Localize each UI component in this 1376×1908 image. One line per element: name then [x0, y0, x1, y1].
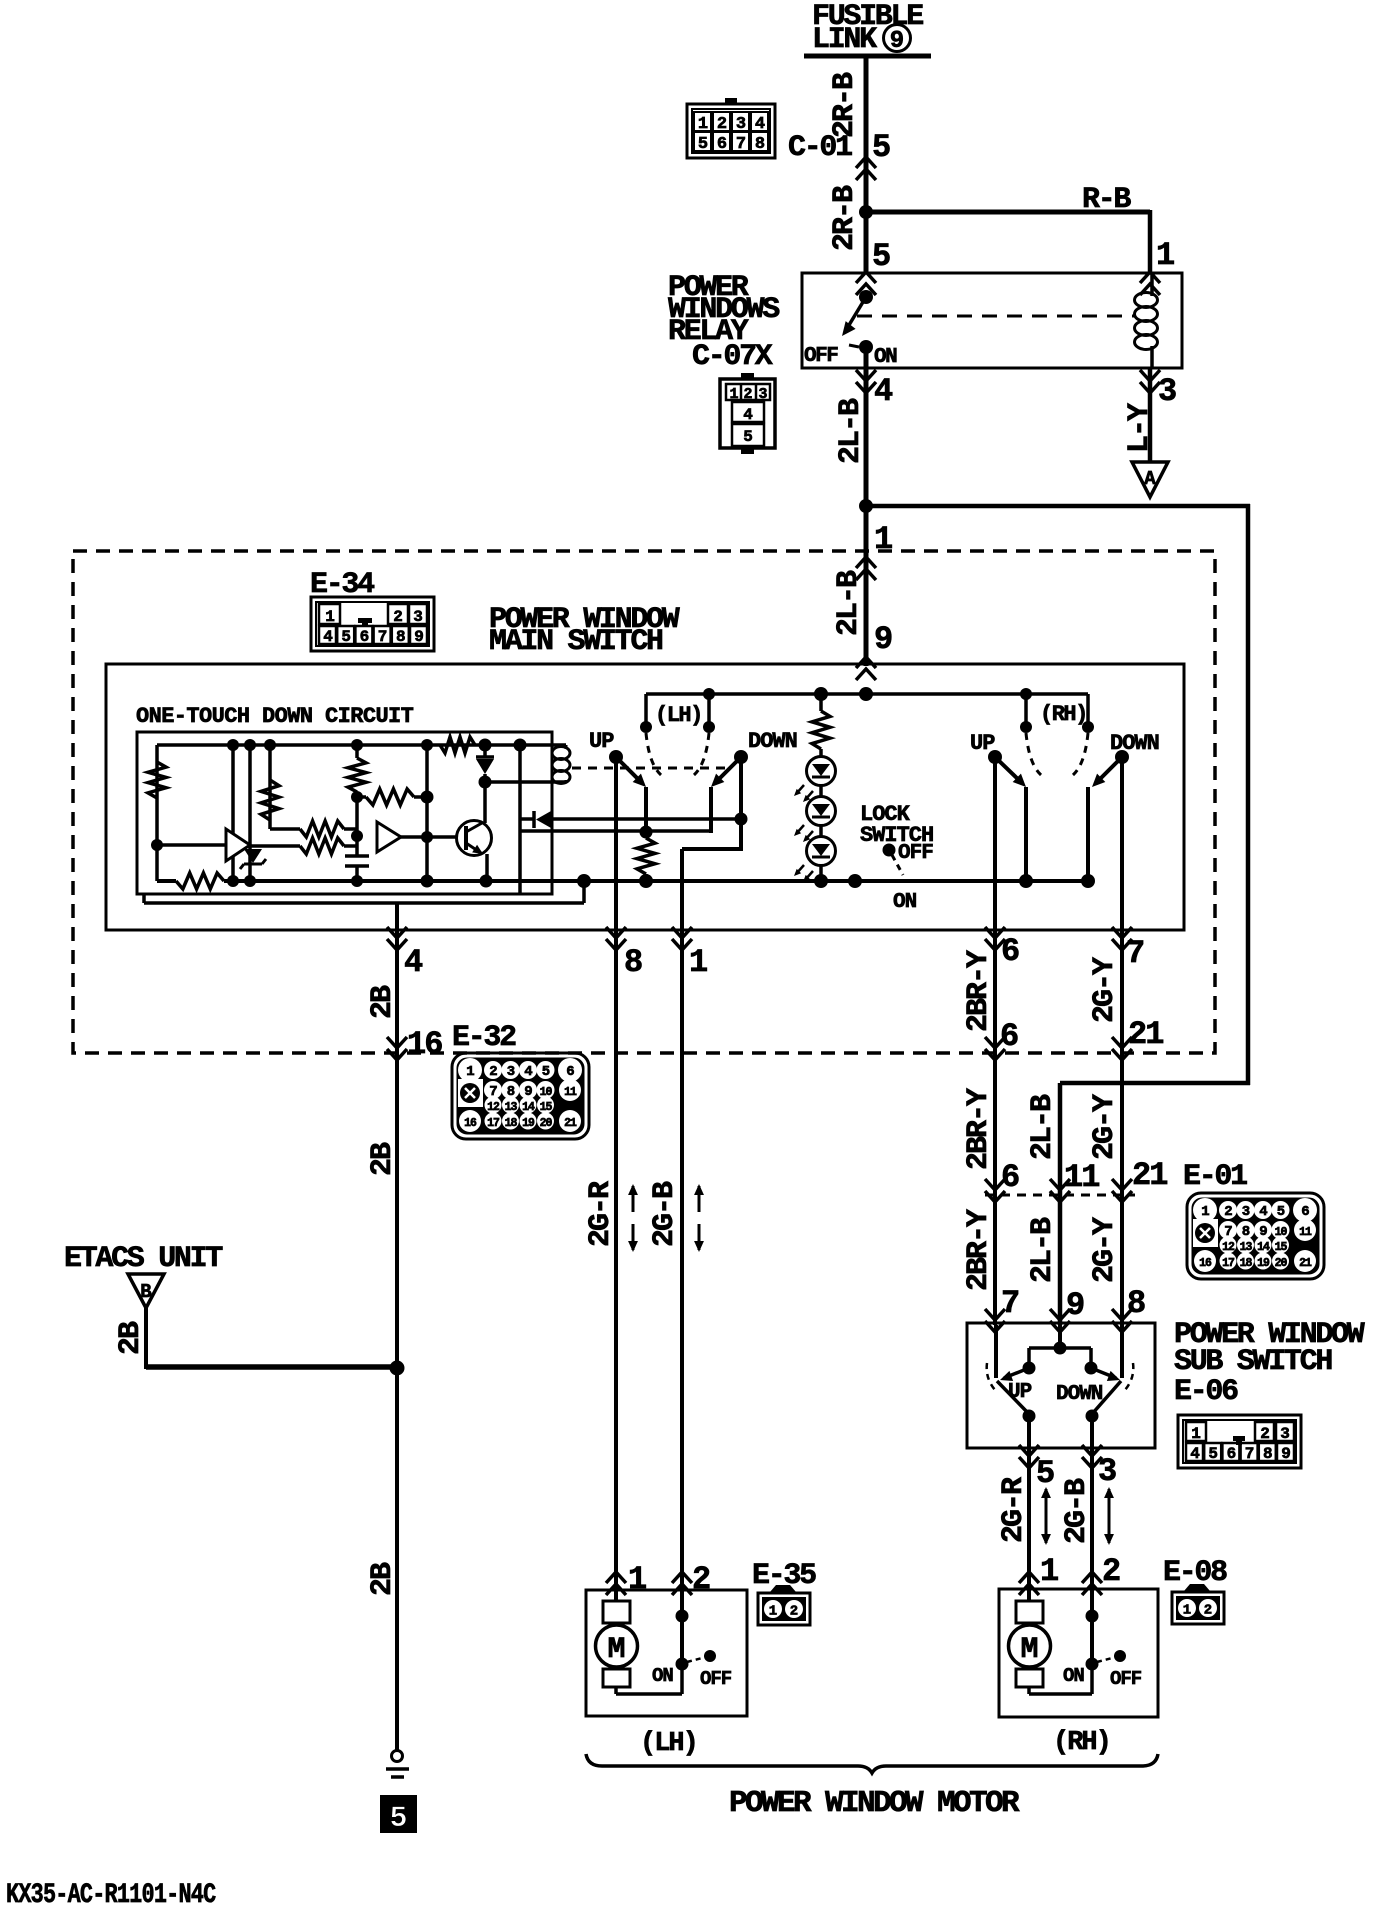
E-01 chevrons a	[985, 1179, 1005, 1202]
svg-text:4: 4	[755, 115, 765, 134]
LH breaker dashed blade	[687, 1657, 706, 1662]
pin 4 chevrons	[387, 927, 407, 950]
svg-text:4: 4	[323, 628, 333, 646]
svg-text:8: 8	[755, 135, 765, 154]
wire LH pin2 internal	[680, 1592, 684, 1664]
one-touch down circuit box	[137, 732, 552, 894]
main switch pin 9 chevrons	[856, 657, 876, 680]
direction arrows 2G-R lh	[632, 1186, 635, 1212]
svg-text:(LH): (LH)	[640, 1729, 697, 1759]
LH switch bracket	[644, 694, 648, 726]
svg-text:7: 7	[1126, 935, 1145, 972]
connector triangle B to ETACS	[128, 1274, 164, 1308]
LH UP switch blade	[616, 757, 642, 783]
relay pin 3 chevrons	[1140, 370, 1160, 393]
node collector	[479, 776, 492, 789]
power window motor brace	[586, 1754, 1158, 1773]
relay actuating dashed link	[857, 315, 1134, 318]
pin 16 chevrons	[387, 1037, 407, 1060]
LH UP switch common node	[609, 750, 623, 764]
wire vertical d	[425, 745, 429, 881]
svg-text:2L-B: 2L-B	[832, 570, 866, 636]
main switch common bus	[157, 879, 176, 883]
svg-text:11: 11	[564, 1086, 577, 1099]
wire 2R-B from C-01 to junction	[864, 214, 869, 216]
svg-text:21: 21	[1299, 1257, 1312, 1270]
junction feed	[859, 687, 873, 701]
svg-text:1: 1	[1183, 1603, 1191, 1619]
svg-text:SUB SWITCH: SUB SWITCH	[1174, 1345, 1331, 1379]
svg-text:5: 5	[872, 238, 891, 275]
svg-text:ON: ON	[652, 1665, 673, 1687]
wire 2B to ground	[395, 1372, 399, 1751]
svg-text:6: 6	[1227, 1445, 1237, 1463]
ground triangle A	[1132, 462, 1168, 497]
svg-text:ETACS UNIT: ETACS UNIT	[64, 1242, 223, 1276]
wire LH DOWN jog	[682, 847, 741, 851]
svg-text:21: 21	[1132, 1157, 1167, 1194]
svg-text:13: 13	[1240, 1241, 1253, 1254]
harness dashed boundary box	[73, 551, 1215, 1053]
bus junction nodes	[577, 874, 591, 888]
wire op-amp1 input	[157, 843, 226, 847]
svg-text:B: B	[140, 1281, 151, 1303]
svg-text:17: 17	[487, 1117, 500, 1130]
svg-text:4: 4	[404, 944, 423, 981]
svg-text:8: 8	[1263, 1445, 1273, 1463]
wire 2G-R rh	[1027, 1450, 1031, 1592]
pin 2 chevrons motor rh	[1082, 1572, 1102, 1595]
connector E-32 icon	[452, 1053, 589, 1139]
svg-text:20: 20	[1275, 1257, 1288, 1270]
svg-text:6: 6	[360, 628, 370, 646]
resistor R8 LED feed	[819, 694, 823, 711]
illumination branch node	[814, 687, 828, 701]
wire RH UP common to pin 6	[993, 757, 997, 932]
svg-text:MAIN SWITCH: MAIN SWITCH	[489, 625, 662, 659]
resistor R4 horizontal	[366, 789, 414, 805]
RH motor breaker ON node	[1086, 1658, 1099, 1671]
relay C-07X box	[802, 273, 1182, 368]
E-01 chevrons c	[1112, 1179, 1132, 1202]
wire mid vertical	[355, 792, 359, 855]
svg-text:7: 7	[736, 135, 746, 154]
wire L-Y relay pin 3 down	[1148, 368, 1153, 463]
svg-text:2L-B: 2L-B	[1026, 1094, 1060, 1160]
svg-text:2G-Y: 2G-Y	[1088, 957, 1122, 1023]
connector C-01 crossing chevrons	[856, 157, 876, 180]
sub UP dashed arc	[987, 1363, 995, 1390]
wire collector link	[485, 780, 566, 784]
wire sub pin3 out	[1090, 1416, 1094, 1450]
wire 2L-B branch jog left	[1060, 1081, 1250, 1086]
wire pin 4 from bus	[395, 903, 399, 932]
svg-text:5: 5	[1208, 1445, 1218, 1463]
svg-text:OFF: OFF	[804, 345, 838, 368]
RH DOWN switch common node	[1115, 750, 1129, 764]
svg-text:5: 5	[698, 135, 708, 154]
svg-text:2: 2	[1224, 1204, 1232, 1220]
svg-text:8: 8	[624, 944, 643, 981]
svg-text:LINK: LINK	[812, 23, 877, 57]
svg-text:ON: ON	[893, 891, 917, 914]
node op-amp input	[151, 839, 163, 851]
svg-text:7: 7	[378, 628, 388, 646]
pin 1 chevrons lh	[672, 927, 692, 950]
svg-text:11: 11	[1299, 1226, 1312, 1239]
wire 2L-B branch right	[866, 504, 1250, 509]
wire 2L-B branch down to sub switch	[1058, 1083, 1063, 1325]
svg-text:2: 2	[717, 115, 727, 134]
svg-text:ON: ON	[874, 346, 897, 369]
svg-text:KX35-AC-R1101-N4C: KX35-AC-R1101-N4C	[6, 1879, 216, 1908]
pin 21 chevrons harness	[1112, 1037, 1132, 1060]
svg-text:2R-B: 2R-B	[828, 72, 862, 138]
svg-text:1: 1	[628, 1561, 647, 1598]
svg-text:OFF: OFF	[700, 1668, 732, 1690]
pin 8 chevrons	[606, 927, 626, 950]
relay pin 1 connector chevrons	[1140, 272, 1160, 295]
svg-text:1: 1	[729, 386, 738, 403]
svg-text:(RH): (RH)	[1053, 1728, 1110, 1758]
wire 2L-B branch down right side	[1246, 504, 1251, 1085]
wire 2B to connector E-32	[395, 932, 399, 1055]
wire 2B to ETACS junction	[395, 1055, 399, 1372]
svg-text:2: 2	[489, 1064, 497, 1080]
RH motor breaker junction	[1086, 1610, 1099, 1623]
wire 2BR-Y pin6 down	[993, 932, 997, 1325]
op-amp U1	[226, 829, 250, 861]
wire sub down contact diagonal	[1092, 1381, 1121, 1414]
svg-text:4: 4	[1190, 1445, 1200, 1463]
svg-text:2G-R: 2G-R	[997, 1477, 1031, 1543]
relay OFF contact tick	[849, 345, 859, 347]
svg-text:9: 9	[1066, 1287, 1085, 1324]
zener diode D1	[244, 849, 262, 863]
svg-text:2BR-Y: 2BR-Y	[962, 1088, 996, 1170]
svg-text:A: A	[1144, 468, 1156, 490]
svg-text:2R-B: 2R-B	[828, 185, 862, 251]
resistor LH up contact	[637, 838, 655, 874]
svg-text:UP: UP	[589, 729, 614, 754]
svg-text:3: 3	[758, 386, 767, 403]
wire 2G-B LH down	[680, 932, 684, 1592]
svg-text:ON: ON	[1063, 1665, 1084, 1687]
sub switch pin chevrons c	[1112, 1309, 1132, 1332]
svg-text:2G-B: 2G-B	[1060, 1478, 1094, 1544]
svg-text:20: 20	[540, 1117, 553, 1130]
E-34 crossing chevrons pin 1	[856, 557, 876, 580]
RH UP switch blade	[995, 757, 1022, 783]
svg-text:2BR-Y: 2BR-Y	[962, 950, 996, 1032]
wire RH DOWN common to pin 7	[1120, 757, 1124, 932]
main switch feed bus	[646, 692, 1088, 696]
RH rocker dashed arc left	[1026, 733, 1041, 775]
relay pin 4 chevrons	[856, 370, 876, 393]
wire 2L-B relay pin 4 down	[864, 347, 869, 508]
LED 2	[807, 797, 836, 826]
wire 2R-B junction to relay pin 5	[864, 212, 869, 273]
sub pin 3 chevrons	[1082, 1445, 1102, 1468]
svg-text:18: 18	[1240, 1257, 1253, 1270]
wire LH DOWN to pin 1	[680, 849, 684, 932]
wire sub up contact diagonal	[997, 1381, 1029, 1414]
wire LH DOWN common down	[739, 757, 743, 851]
pin 2 chevrons motor lh	[672, 1572, 692, 1595]
one-touch mechanism dashed link	[572, 767, 727, 770]
one-touch relay coil	[565, 745, 568, 749]
LH rocker dashed arc right	[694, 733, 709, 775]
svg-text:1: 1	[1191, 1425, 1201, 1443]
wire ETACS horizontal	[146, 1364, 397, 1370]
one-touch left rail	[155, 745, 159, 881]
svg-text:9: 9	[874, 621, 893, 658]
pin 6 chevrons harness	[985, 1037, 1005, 1060]
svg-text:2B: 2B	[114, 1321, 148, 1355]
svg-text:6: 6	[1000, 1018, 1019, 1055]
power window sub switch box	[967, 1323, 1155, 1448]
svg-text:1: 1	[466, 1064, 474, 1080]
connector C-07X icon	[720, 379, 775, 448]
LH motor breaker junction	[676, 1610, 689, 1623]
junction node 2L-B branch	[859, 499, 873, 513]
svg-text:2: 2	[393, 608, 403, 626]
sub switch pin chevrons a	[985, 1309, 1005, 1332]
sub DOWN blade	[1091, 1368, 1116, 1378]
wire 2B from ETACS triangle	[144, 1308, 148, 1369]
svg-text:7: 7	[1001, 1285, 1020, 1322]
svg-text:15: 15	[1275, 1241, 1288, 1254]
connector E-01 dashed junction	[985, 1194, 1135, 1197]
svg-text:(RH): (RH)	[1040, 702, 1087, 727]
svg-text:R-B: R-B	[1082, 183, 1131, 217]
svg-text:POWER WINDOW MOTOR: POWER WINDOW MOTOR	[729, 1786, 1020, 1821]
svg-text:16: 16	[464, 1117, 477, 1130]
svg-text:3: 3	[736, 115, 746, 134]
wire RH UP contact to bus	[1024, 787, 1028, 881]
svg-text:19: 19	[1257, 1257, 1270, 1270]
op-amp U2	[377, 822, 401, 852]
wire op-amp2 out to base	[401, 835, 458, 839]
resistor R1 left	[148, 762, 166, 798]
svg-text:2B: 2B	[366, 1562, 400, 1596]
wire RH pin2 internal	[1090, 1592, 1094, 1664]
svg-text:3: 3	[507, 1064, 515, 1080]
relay switch blade arrowhead	[842, 321, 856, 336]
resistor R6 in top rail	[440, 737, 475, 753]
relay switch common node	[859, 290, 873, 304]
node top rail f	[514, 739, 527, 752]
ground reference 5 black box	[380, 1795, 417, 1833]
relay pin 5 connector chevrons	[856, 272, 876, 295]
connector E-01 icon	[1187, 1193, 1324, 1279]
RH rocker dashed arc right	[1073, 733, 1088, 775]
svg-text:DOWN: DOWN	[1056, 1383, 1103, 1406]
svg-text:5: 5	[341, 628, 351, 646]
node top rail e	[479, 739, 492, 752]
wire 2G-B rh	[1090, 1450, 1094, 1592]
E-01 chevrons b	[1050, 1179, 1070, 1202]
svg-text:5: 5	[1277, 1204, 1285, 1220]
lock switch dashed blade	[892, 855, 903, 875]
svg-text:M: M	[1020, 1633, 1038, 1667]
svg-text:2G-R: 2G-R	[584, 1181, 618, 1247]
wire LH DOWN contact down	[709, 787, 713, 833]
LH rocker dashed arc left	[646, 733, 661, 775]
svg-text:19: 19	[522, 1117, 535, 1130]
svg-text:3: 3	[1242, 1204, 1250, 1220]
wire LH UP contact down	[644, 787, 648, 833]
wire sub pin5 out	[1027, 1416, 1031, 1450]
RH switch bracket	[1024, 694, 1028, 726]
wire vertical a	[231, 745, 235, 881]
svg-text:DOWN: DOWN	[748, 729, 797, 754]
fusible link bus bar	[804, 54, 931, 59]
sub pin 5 chevrons	[1019, 1445, 1039, 1468]
svg-text:9: 9	[890, 28, 904, 55]
one-touch top rail	[157, 743, 566, 747]
svg-text:C-07X: C-07X	[692, 340, 773, 374]
svg-text:2L-B: 2L-B	[1026, 1217, 1060, 1283]
capacitor C1	[345, 854, 369, 858]
svg-text:5: 5	[389, 1802, 407, 1836]
svg-text:3: 3	[413, 608, 423, 626]
LH motor M1	[603, 1601, 630, 1623]
svg-text:4: 4	[524, 1064, 532, 1080]
RH breaker dashed blade	[1097, 1657, 1116, 1662]
svg-text:2G-Y: 2G-Y	[1088, 1217, 1122, 1283]
direction arrows 2G-B lh	[698, 1186, 701, 1212]
wire sub pin8 internal	[1120, 1325, 1124, 1378]
wire 2G-Y pin7 down	[1120, 932, 1124, 1325]
svg-text:1: 1	[769, 1604, 777, 1620]
svg-text:17: 17	[1222, 1257, 1235, 1270]
svg-text:5: 5	[872, 129, 891, 166]
svg-text:ONE-TOUCH DOWN CIRCUIT: ONE-TOUCH DOWN CIRCUIT	[136, 704, 414, 729]
LH motor breaker ON node	[676, 1658, 689, 1671]
svg-text:5: 5	[542, 1064, 550, 1080]
RH motor M2	[1016, 1601, 1043, 1623]
diode D3	[521, 817, 534, 821]
svg-text:2BR-Y: 2BR-Y	[962, 1209, 996, 1291]
svg-text:21: 21	[1128, 1016, 1163, 1053]
pin 6 chevrons	[985, 927, 1005, 950]
RH UP switch common node	[988, 750, 1002, 764]
svg-text:16: 16	[1199, 1257, 1212, 1270]
svg-text:OFF: OFF	[898, 842, 933, 865]
svg-text:4: 4	[1259, 1204, 1267, 1220]
svg-text:2L-B: 2L-B	[834, 398, 868, 464]
svg-text:M: M	[607, 1633, 625, 1667]
resistor R3 vertical mid	[355, 745, 359, 758]
resistor R5b	[300, 838, 344, 854]
svg-text:15: 15	[540, 1101, 553, 1114]
svg-text:12: 12	[1222, 1241, 1235, 1254]
LH breaker OFF node	[704, 1650, 716, 1662]
svg-text:9: 9	[1281, 1445, 1291, 1463]
LED 1	[807, 757, 836, 786]
svg-text:4: 4	[874, 373, 893, 410]
svg-text:OFF: OFF	[1110, 1668, 1142, 1690]
sub switch pin chevrons b	[1050, 1309, 1070, 1332]
wire LH UP common to pin 8	[614, 757, 618, 932]
svg-text:4: 4	[743, 406, 753, 424]
svg-text:1: 1	[1156, 237, 1175, 274]
svg-text:1: 1	[689, 944, 708, 981]
wire led column	[819, 749, 823, 881]
direction arrows 2G-R rh	[1045, 1489, 1048, 1543]
pin 1 chevrons motor lh	[606, 1572, 626, 1595]
RH DOWN switch blade	[1096, 757, 1122, 783]
svg-text:(LH): (LH)	[655, 703, 702, 728]
RH breaker OFF node	[1114, 1650, 1126, 1662]
connector E-35 icon	[770, 1585, 796, 1592]
svg-text:2G-B: 2G-B	[648, 1181, 682, 1247]
wire RH DOWN contact to bus	[1086, 787, 1090, 881]
transistor Q1	[457, 821, 492, 856]
sub contact node right	[1086, 1410, 1099, 1423]
wire one-touch to DOWN contact	[521, 829, 711, 833]
svg-text:3: 3	[1098, 1453, 1117, 1490]
svg-text:14: 14	[522, 1101, 535, 1114]
svg-text:6: 6	[1301, 1204, 1309, 1220]
wire vertical c	[268, 745, 272, 829]
wire resistor to bus	[644, 874, 648, 881]
RH motor bottom wire	[1027, 1687, 1031, 1694]
connector E-06 icon	[1178, 1415, 1301, 1468]
diode D2	[483, 745, 487, 757]
one-touch ground return wire	[582, 881, 586, 903]
svg-text:1: 1	[1040, 1553, 1059, 1590]
direction arrows 2G-B rh	[1108, 1489, 1111, 1543]
junction node of 2R-B and R-B	[859, 205, 873, 219]
svg-text:12: 12	[487, 1101, 500, 1114]
wire R-B down to relay pin 1	[1148, 210, 1153, 273]
svg-text:16: 16	[407, 1026, 442, 1063]
LH motor bottom wire	[614, 1687, 618, 1694]
svg-text:2: 2	[1102, 1553, 1121, 1590]
wire R-B horizontal	[866, 210, 1150, 215]
resistor R7 in ground bus	[176, 873, 224, 889]
svg-text:2: 2	[1204, 1603, 1212, 1619]
sub contact node left	[1023, 1410, 1036, 1423]
resistor R5a	[300, 821, 344, 837]
svg-text:5: 5	[1036, 1455, 1055, 1492]
svg-text:1: 1	[1201, 1204, 1209, 1220]
connector E-08 icon	[1184, 1584, 1210, 1591]
svg-text:1: 1	[698, 115, 708, 134]
svg-text:2B: 2B	[366, 985, 400, 1019]
connector E-34 icon	[311, 597, 434, 651]
relay coil	[1150, 273, 1154, 296]
svg-text:13: 13	[505, 1101, 518, 1114]
resistor R2	[261, 780, 279, 820]
svg-text:5: 5	[743, 428, 753, 446]
lock switch OFF node	[883, 844, 896, 857]
svg-text:3: 3	[1280, 1425, 1290, 1443]
LH DOWN switch blade	[715, 757, 741, 783]
power window main switch box	[106, 664, 1184, 930]
svg-text:21: 21	[564, 1117, 577, 1130]
svg-text:8: 8	[1127, 1285, 1146, 1322]
svg-text:E-01: E-01	[1183, 1160, 1247, 1194]
svg-text:6: 6	[566, 1064, 574, 1080]
svg-text:UP: UP	[1008, 1381, 1032, 1404]
wire vertical b	[248, 745, 252, 881]
svg-text:2B: 2B	[366, 1142, 400, 1176]
svg-text:14: 14	[1257, 1241, 1270, 1254]
RH power window motor box	[999, 1589, 1158, 1717]
